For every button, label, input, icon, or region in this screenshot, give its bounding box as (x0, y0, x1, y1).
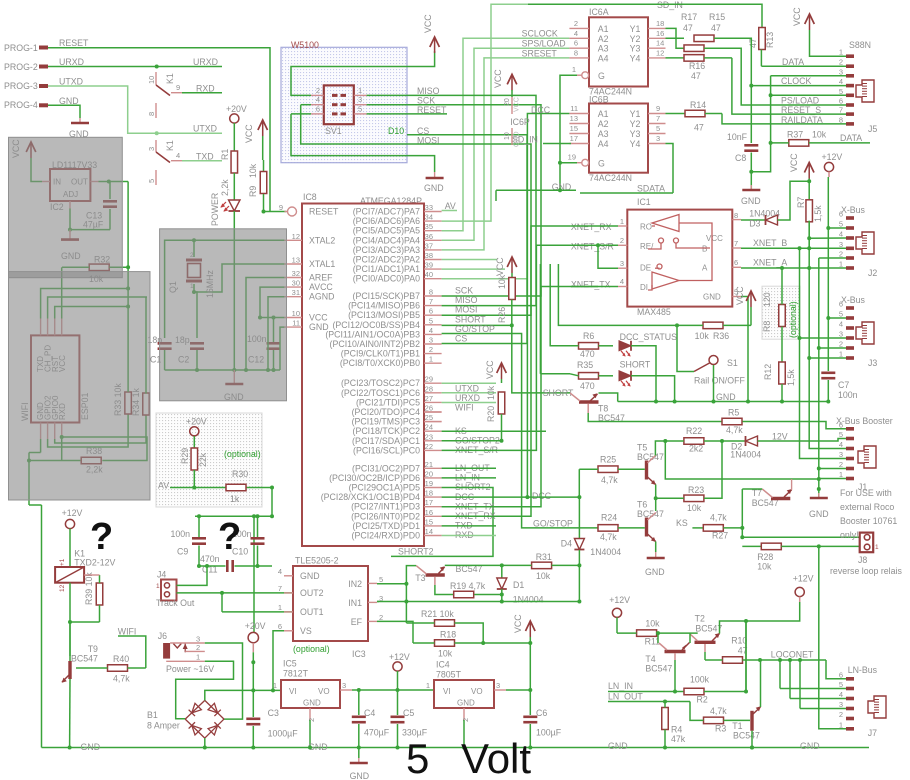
svg-text:A1: A1 (598, 24, 609, 34)
wire (31, 158, 42, 182)
wire AREF/AVCC/AGND (246, 278, 284, 371)
wire +12V rail down right side (828, 172, 830, 177)
svg-text:R3: R3 (715, 724, 726, 734)
wire J1 pin2/pin1 taps (817, 467, 821, 471)
svg-text:URXD: URXD (59, 57, 84, 67)
svg-text:VCC: VCC (493, 69, 503, 88)
svg-text:+12V: +12V (62, 508, 83, 518)
connector J8 (860, 533, 874, 553)
svg-text:DI: DI (640, 283, 648, 292)
svg-text:4: 4 (839, 77, 843, 86)
svg-text:8: 8 (574, 48, 578, 57)
svg-text:UTXD: UTXD (59, 77, 83, 87)
svg-text:C9: C9 (177, 547, 188, 557)
svg-text:3: 3 (496, 681, 500, 690)
svg-text:4: 4 (839, 320, 843, 329)
svg-text:T3: T3 (415, 573, 425, 583)
wire T5 collector to R22 row (655, 441, 665, 456)
capacitor C3 (252, 690, 254, 717)
resistor R12 (779, 362, 786, 384)
svg-text:8: 8 (734, 211, 738, 220)
svg-text:2: 2 (429, 345, 433, 354)
svg-text:UTXD: UTXD (193, 124, 217, 134)
svg-text:XNET_S/R: XNET_S/R (571, 242, 614, 252)
svg-text:VCC: VCC (309, 313, 328, 323)
svg-text:10k: 10k (438, 649, 453, 659)
svg-text:CLOCK: CLOCK (781, 76, 811, 86)
wire IC6B Y4 to SDATA (666, 144, 674, 194)
group box ESP01 (9, 272, 151, 500)
svg-text:A: A (702, 264, 708, 273)
svg-text:(PCI14/MISO)PB6: (PCI14/MISO)PB6 (348, 301, 420, 311)
svg-text:EF: EF (351, 617, 363, 627)
svg-text:IC5: IC5 (283, 659, 297, 669)
svg-text:470: 470 (580, 349, 595, 359)
svg-text:40: 40 (425, 270, 433, 279)
wire J7 middle feeds (780, 688, 846, 690)
svg-text:SD_IN: SD_IN (657, 0, 683, 10)
resistor R29 (193, 436, 195, 448)
svg-text:(optional): (optional) (293, 644, 330, 654)
svg-text:POWER: POWER (210, 193, 220, 226)
svg-text:18: 18 (425, 489, 433, 498)
capacitor C5 (397, 690, 399, 715)
svg-text:100k: 100k (690, 675, 710, 685)
svg-text:XNET_TX: XNET_TX (571, 280, 611, 290)
svg-text:K1: K1 (165, 73, 175, 84)
svg-text:GND: GND (350, 771, 370, 780)
svg-text:25: 25 (425, 413, 433, 422)
svg-text:GND: GND (81, 742, 101, 752)
svg-text:R25: R25 (600, 455, 616, 465)
svg-text:2: 2 (620, 236, 624, 245)
svg-text:7: 7 (839, 106, 843, 115)
svg-text:T1: T1 (732, 721, 742, 731)
svg-text:36: 36 (425, 232, 433, 241)
svg-text:13: 13 (570, 114, 578, 123)
pin 5 stub (155, 170, 157, 185)
svg-text:AV: AV (158, 481, 169, 491)
svg-text:13: 13 (292, 256, 300, 265)
svg-text:?: ? (218, 516, 241, 558)
svg-text:4,7k: 4,7k (600, 532, 617, 542)
svg-text:6: 6 (278, 622, 282, 631)
wire T2 collector net (745, 621, 747, 692)
svg-text:?: ? (90, 516, 113, 558)
svg-text:VCC: VCC (244, 124, 254, 143)
svg-text:22: 22 (425, 442, 433, 451)
svg-text:(PCI0/ADC0)PA0: (PCI0/ADC0)PA0 (353, 274, 420, 284)
svg-text:470µF: 470µF (364, 728, 390, 738)
svg-text:1N4004: 1N4004 (730, 450, 761, 460)
svg-text:2: 2 (196, 643, 200, 652)
svg-text:GND: GND (303, 699, 321, 708)
svg-text:4: 4 (839, 440, 843, 449)
svg-text:47: 47 (711, 23, 721, 33)
svg-text:PROG-4: PROG-4 (4, 100, 38, 110)
svg-text:A4: A4 (598, 53, 609, 63)
svg-text:R17: R17 (681, 12, 697, 22)
svg-text:R26: R26 (497, 307, 507, 323)
wire J4 pin2 to OUT2 (177, 592, 294, 594)
wire T1 collector (760, 660, 762, 707)
svg-text:RESET: RESET (309, 207, 339, 217)
svg-text:+20V: +20V (186, 417, 207, 427)
svg-text:DE: DE (640, 264, 651, 273)
svg-text:D4: D4 (561, 539, 572, 549)
wires PA fan to IC6 inputs (442, 4, 657, 221)
svg-text:T9: T9 (88, 644, 98, 654)
svg-text:R8: R8 (762, 321, 772, 332)
svg-text:5: 5 (406, 735, 429, 780)
ground (T6) (655, 552, 657, 558)
svg-text:6: 6 (839, 420, 843, 429)
svg-text:R21 10k: R21 10k (421, 609, 454, 619)
group box optional AV (156, 413, 262, 507)
svg-text:R4: R4 (671, 725, 682, 735)
wire (233, 123, 235, 152)
svg-text:A3: A3 (598, 129, 609, 139)
svg-text:SCK: SCK (455, 286, 473, 296)
wire +20V rail to caps (195, 515, 272, 517)
svg-text:T5: T5 (637, 443, 647, 453)
svg-text:R23: R23 (688, 485, 704, 495)
svg-text:(PCI11/AIN1/OC0A)PB3: (PCI11/AIN1/OC0A)PB3 (325, 329, 420, 339)
svg-text:VCC: VCC (485, 360, 495, 379)
svg-text:3: 3 (358, 95, 362, 104)
wire J6 pin3 to bridge right vertex (205, 643, 243, 719)
svg-text:12: 12 (59, 584, 66, 592)
svg-text:S88N: S88N (849, 40, 871, 50)
svg-text:UTXD: UTXD (455, 384, 479, 394)
svg-text:+12V: +12V (389, 652, 410, 662)
svg-text:(PCI28/XCK1/OC1B)PD4: (PCI28/XCK1/OC1B)PD4 (321, 492, 420, 502)
svg-text:2,2k: 2,2k (220, 179, 230, 196)
group box LD1117 (9, 137, 123, 277)
wire RESET to IC8 (264, 194, 287, 212)
svg-text:6: 6 (839, 670, 843, 679)
wire J8 pin1 row (742, 536, 859, 538)
svg-text:R12: R12 (763, 364, 773, 380)
svg-text:3: 3 (429, 336, 433, 345)
svg-text:(PCI21/TDI)PC5: (PCI21/TDI)PC5 (356, 397, 420, 407)
svg-text:OUT1: OUT1 (300, 607, 324, 617)
svg-text:R20: R20 (486, 406, 496, 422)
wire T6 emitter to gnd (655, 542, 657, 553)
svg-text:C3: C3 (268, 708, 279, 718)
svg-text:(PCI27/INT1)PD3: (PCI27/INT1)PD3 (351, 502, 420, 512)
wire vertical OUT rail (127, 182, 129, 348)
svg-text:19: 19 (425, 479, 433, 488)
svg-text:33: 33 (425, 203, 433, 212)
svg-text:3: 3 (839, 700, 843, 709)
svg-text:3: 3 (147, 147, 156, 151)
svg-text:Y3: Y3 (630, 44, 641, 54)
svg-text:R35: R35 (577, 360, 593, 370)
svg-text:10: 10 (504, 132, 511, 140)
svg-text:GO/STOP: GO/STOP (533, 519, 573, 529)
svg-text:VCC: VCC (789, 153, 799, 172)
wire XTAL1 net (194, 264, 284, 292)
svg-text:5: 5 (839, 220, 843, 229)
svg-text:IC8: IC8 (303, 192, 317, 202)
svg-text:IC6P: IC6P (510, 117, 530, 127)
switch K1 (upper jumper) (155, 72, 157, 85)
svg-text:(PCI7/ADC7)PA7: (PCI7/ADC7)PA7 (353, 207, 420, 217)
wire VCC pin8 (741, 219, 766, 221)
svg-text:1,5k: 1,5k (813, 205, 823, 222)
svg-text:reverse loop relais: reverse loop relais (830, 566, 902, 576)
wire to C1 (165, 240, 194, 338)
svg-text:A4: A4 (598, 139, 609, 149)
svg-text:SCLOCK: SCLOCK (522, 29, 558, 39)
wire ESP VCC pullup (61, 267, 63, 318)
svg-text:R5: R5 (728, 408, 739, 418)
svg-text:XNET_RX: XNET_RX (571, 222, 612, 232)
svg-text:15: 15 (425, 517, 433, 526)
svg-text:(PCI3/ADC3)PA3: (PCI3/ADC3)PA3 (353, 245, 420, 255)
svg-text:1: 1 (273, 681, 277, 690)
svg-text:AREF: AREF (309, 273, 333, 283)
svg-text:7: 7 (734, 239, 738, 248)
pin 8 stub (155, 103, 157, 118)
svg-text:BC547: BC547 (733, 731, 760, 741)
svg-text:Y2: Y2 (630, 119, 641, 129)
svg-text:R40: R40 (113, 654, 129, 664)
svg-text:10k: 10k (486, 385, 496, 400)
svg-text:7: 7 (656, 114, 660, 123)
resistor R7 (808, 179, 810, 201)
svg-text:MISO: MISO (455, 295, 478, 305)
svg-text:VCC: VCC (706, 234, 723, 243)
svg-text:34: 34 (425, 213, 433, 222)
svg-text:(PCI6/ADC6)PA6: (PCI6/ADC6)PA6 (353, 216, 420, 226)
svg-text:RESET: RESET (59, 38, 89, 48)
wires T2/T4 links (657, 633, 659, 643)
svg-text:2: 2 (307, 718, 316, 722)
svg-text:XTAL1: XTAL1 (309, 259, 335, 269)
svg-text:(PCI13/MOSI)PB5: (PCI13/MOSI)PB5 (348, 310, 420, 320)
svg-text:10: 10 (292, 309, 300, 318)
connector SV1 (324, 85, 354, 124)
resistor R39 (96, 583, 103, 605)
svg-text:6: 6 (839, 300, 843, 309)
wire OUT net (99, 181, 129, 183)
capacitor C6 (529, 690, 531, 715)
svg-text:SDATA: SDATA (637, 184, 665, 194)
svg-text:3: 3 (839, 450, 843, 459)
wire T8 emitter to gnd rail (599, 393, 618, 402)
wire J8/J7 vertical (819, 546, 846, 728)
svg-text:10k: 10k (695, 331, 710, 341)
svg-text:DCC_STATUS: DCC_STATUS (620, 332, 677, 342)
svg-text:WIFI: WIFI (455, 403, 474, 413)
resistor R13 (759, 28, 766, 50)
ground (IC2) (69, 230, 71, 240)
svg-text:BC547: BC547 (71, 654, 98, 664)
svg-text:J5: J5 (868, 124, 877, 134)
svg-text:39: 39 (425, 261, 433, 270)
resistor R4 (662, 708, 669, 730)
svg-text:(PCI9/CLK0/T1)PB1: (PCI9/CLK0/T1)PB1 (341, 349, 420, 359)
svg-text:35: 35 (425, 222, 433, 231)
svg-text:(PCI20/TDO)PC4: (PCI20/TDO)PC4 (352, 407, 421, 417)
wire EF net (377, 621, 413, 643)
wire IC4 gnd (463, 720, 465, 748)
svg-text:IC1: IC1 (637, 197, 651, 207)
svg-text:MAX485: MAX485 (637, 307, 671, 317)
wire ADJ to GND (70, 209, 110, 230)
switch S1 Rail ON/OFF (709, 356, 718, 365)
svg-text:10k: 10k (645, 619, 660, 629)
svg-text:URXD: URXD (455, 393, 480, 403)
svg-text:GND: GND (59, 96, 79, 106)
svg-text:(optional): (optional) (788, 301, 798, 338)
svg-text:T6: T6 (637, 500, 647, 510)
svg-text:29: 29 (425, 375, 433, 384)
capacitor C13 (109, 182, 111, 200)
svg-text:30: 30 (292, 279, 300, 288)
svg-text:R15: R15 (709, 12, 725, 22)
capacitor C7 (821, 372, 835, 375)
module W5100 box (281, 47, 407, 162)
svg-text:R31: R31 (536, 552, 552, 562)
svg-text:GND: GND (703, 293, 721, 302)
svg-text:5: 5 (656, 124, 660, 133)
svg-text:(PCI8/T0/XCK0)PB0: (PCI8/T0/XCK0)PB0 (340, 358, 420, 368)
svg-text:GND: GND (300, 571, 320, 581)
svg-text:C7: C7 (838, 380, 849, 390)
svg-text:PROG-3: PROG-3 (4, 81, 38, 91)
svg-text:C5: C5 (403, 708, 414, 718)
wire T7 base from KS (742, 488, 762, 490)
svg-text:20: 20 (425, 469, 433, 478)
svg-text:PROG-1: PROG-1 (4, 43, 38, 53)
svg-text:Y3: Y3 (630, 129, 641, 139)
svg-text:J7: J7 (868, 728, 877, 738)
svg-text:VI: VI (443, 687, 451, 696)
wires ESP bottom (40, 439, 42, 453)
svg-text:X-Bus: X-Bus (841, 205, 866, 215)
svg-text:B1: B1 (147, 710, 158, 720)
svg-text:only!: only! (840, 530, 859, 540)
svg-text:19: 19 (568, 153, 576, 162)
wire J5 pin3/pin5 net (771, 75, 846, 77)
svg-text:R30: R30 (232, 469, 248, 479)
svg-text:Y1: Y1 (630, 24, 641, 34)
svg-text:100n: 100n (838, 390, 858, 400)
svg-text:4: 4 (839, 230, 843, 239)
svg-text:LN-Bus: LN-Bus (848, 665, 878, 675)
svg-text:RO: RO (640, 223, 652, 232)
wire to C2 (194, 292, 197, 338)
svg-text:LN_IN: LN_IN (608, 681, 633, 691)
svg-text:7805T: 7805T (436, 670, 462, 680)
svg-text:LN_OUT: LN_OUT (608, 692, 643, 702)
svg-text:B: B (702, 245, 707, 254)
ground (W5100) (434, 172, 436, 178)
svg-text:21: 21 (425, 460, 433, 469)
svg-text:(PCI10/AIN0/INT2)PB2: (PCI10/AIN0/INT2)PB2 (330, 339, 421, 349)
svg-text:R13: R13 (765, 32, 775, 48)
svg-text:SV1: SV1 (325, 126, 342, 136)
svg-text:1: 1 (278, 603, 282, 612)
svg-text:47k: 47k (671, 734, 686, 744)
svg-text:10k: 10k (536, 571, 551, 581)
svg-text:DCC: DCC (532, 491, 552, 501)
svg-text:R27: R27 (712, 531, 728, 541)
svg-text:(PCI4/ADC4)PA4: (PCI4/ADC4)PA4 (353, 235, 420, 245)
svg-text:BC547: BC547 (695, 624, 722, 634)
svg-text:100µF: 100µF (536, 728, 562, 738)
svg-text:R37: R37 (787, 130, 803, 140)
svg-text:+20V: +20V (226, 104, 247, 114)
svg-text:17: 17 (425, 498, 433, 507)
svg-text:1N4004: 1N4004 (590, 547, 621, 557)
wire XTAL2 net (194, 239, 284, 241)
svg-text:12: 12 (292, 232, 300, 241)
svg-text:R6: R6 (583, 331, 594, 341)
wire J4 pin1 to C11 row (177, 566, 208, 585)
svg-text:47: 47 (683, 23, 693, 33)
svg-text:A3: A3 (598, 44, 609, 54)
svg-text:SHORT: SHORT (620, 360, 651, 370)
ground bus bottom (42, 747, 870, 749)
svg-text:(PCI24/RXD)PD0: (PCI24/RXD)PD0 (352, 531, 421, 541)
svg-text:TLE5205-2: TLE5205-2 (295, 556, 339, 566)
svg-text:4: 4 (839, 690, 843, 699)
svg-text:Volt: Volt (461, 735, 531, 780)
svg-text:R18: R18 (440, 630, 456, 640)
wire J6 pin1 to bridge left vertex (176, 661, 234, 719)
svg-text:URXD: URXD (193, 57, 218, 67)
svg-text:2: 2 (574, 19, 578, 28)
svg-text:3: 3 (839, 67, 843, 76)
svg-text:S1: S1 (727, 358, 738, 368)
svg-text:GND: GND (424, 183, 444, 193)
svg-text:9: 9 (176, 83, 180, 92)
svg-text:32: 32 (292, 269, 300, 278)
svg-text:SPS/LOAD: SPS/LOAD (522, 39, 566, 49)
wire OUT1 net (222, 611, 293, 613)
svg-text:1k: 1k (230, 494, 240, 504)
svg-text:1: 1 (839, 470, 843, 479)
wire DE link (598, 245, 618, 268)
svg-text:(PCI31/OC2)PD7: (PCI31/OC2)PD7 (352, 463, 420, 473)
svg-text:16: 16 (425, 508, 433, 517)
svg-text:GND: GND (716, 392, 736, 402)
svg-text:GND: GND (645, 567, 665, 577)
svg-text:MOSI: MOSI (455, 305, 477, 315)
svg-text:1: 1 (839, 350, 843, 359)
svg-text:R19 4,7k: R19 4,7k (450, 581, 486, 591)
svg-text:KS: KS (676, 518, 688, 528)
svg-text:(PCI22/TOSC1)PC6: (PCI22/TOSC1)PC6 (341, 388, 420, 398)
svg-text:OUT2: OUT2 (300, 588, 324, 598)
IC ESP01 module (31, 335, 79, 422)
svg-text:10k: 10k (497, 274, 507, 289)
svg-text:(PCI17/SDA)PC1: (PCI17/SDA)PC1 (352, 436, 420, 446)
svg-text:470n: 470n (200, 554, 220, 564)
svg-text:5: 5 (379, 575, 383, 584)
svg-text:10: 10 (147, 76, 156, 84)
svg-text:VCC: VCC (513, 614, 523, 633)
svg-text:X-Bus: X-Bus (841, 295, 866, 305)
svg-text:11: 11 (570, 104, 578, 113)
svg-text:VCC: VCC (423, 14, 433, 33)
svg-text:Y2: Y2 (630, 34, 641, 44)
svg-text:(PCI15/SCK)PB7: (PCI15/SCK)PB7 (353, 291, 421, 301)
